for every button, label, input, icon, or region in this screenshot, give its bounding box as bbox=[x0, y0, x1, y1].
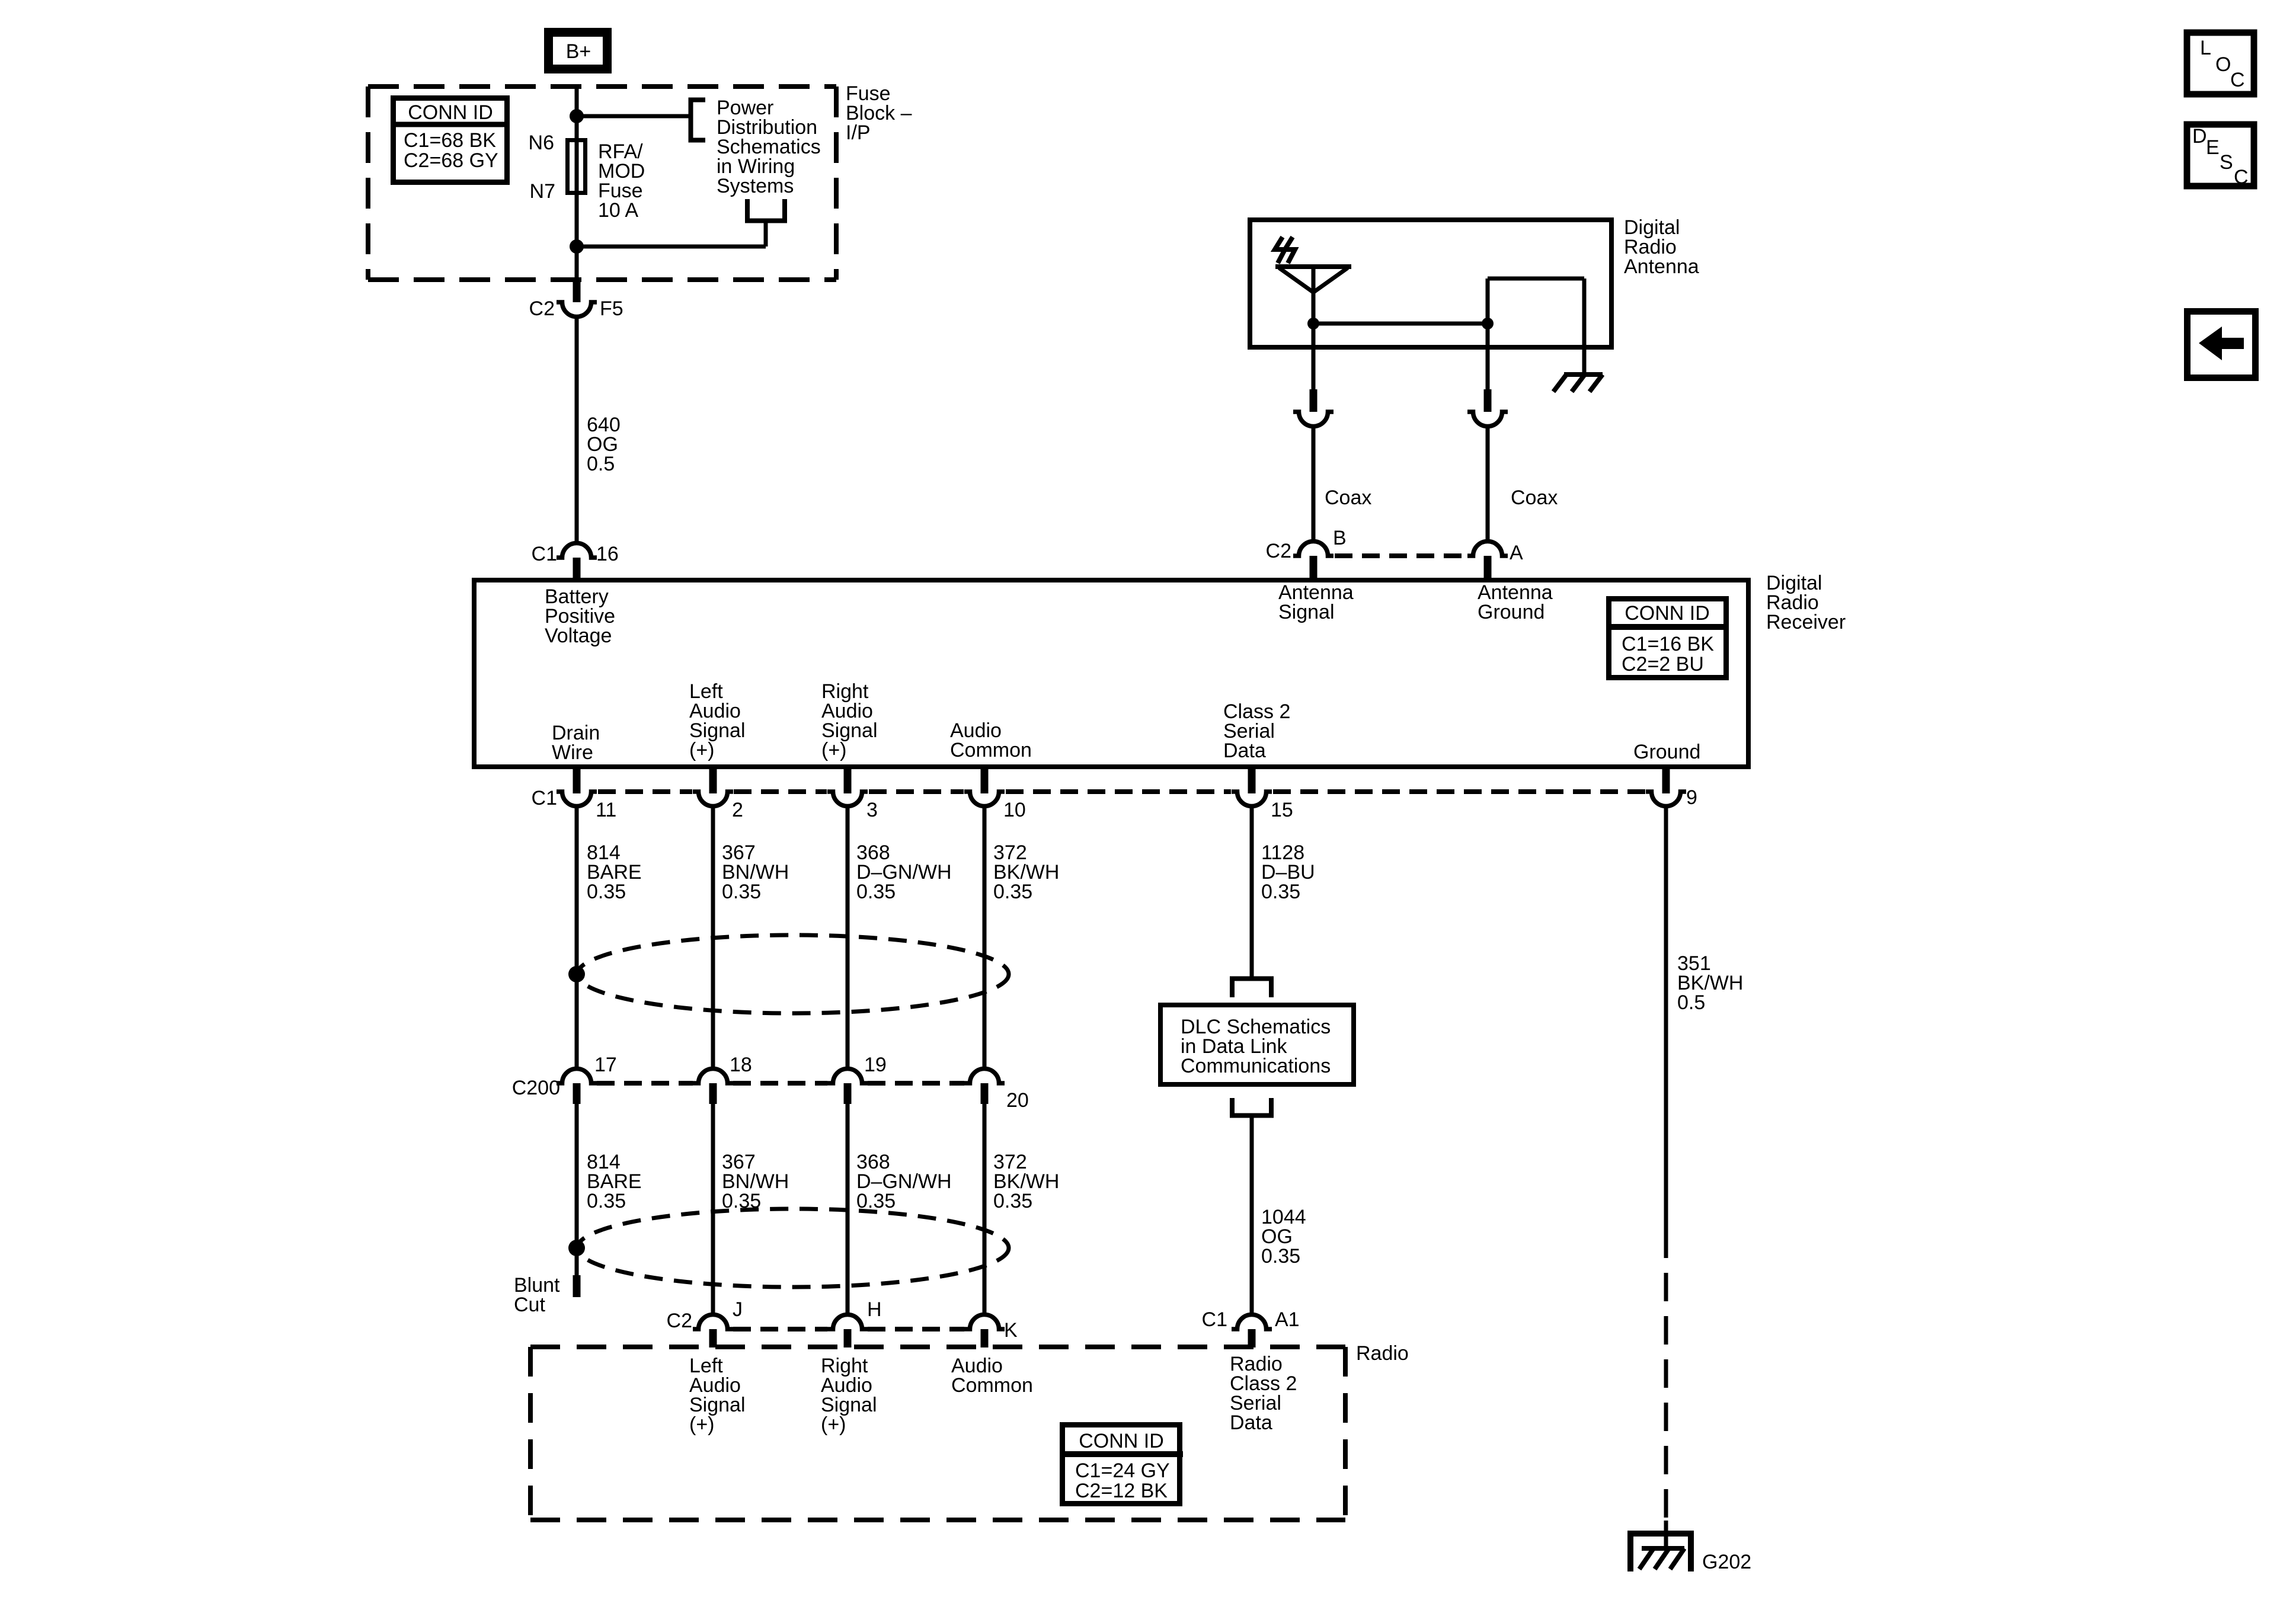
svg-text:(+): (+) bbox=[821, 739, 847, 761]
svg-text:C1: C1 bbox=[1202, 1308, 1227, 1331]
svg-text:C2=2 BU: C2=2 BU bbox=[1622, 653, 1704, 676]
svg-text:K: K bbox=[1004, 1319, 1018, 1342]
svg-text:19: 19 bbox=[864, 1054, 887, 1076]
svg-text:Signal: Signal bbox=[1278, 601, 1335, 623]
svg-text:C: C bbox=[2234, 166, 2249, 188]
svg-text:CONN ID: CONN ID bbox=[1625, 602, 1710, 625]
svg-text:0.5: 0.5 bbox=[587, 453, 615, 475]
svg-text:I/P: I/P bbox=[846, 121, 871, 144]
svg-text:Common: Common bbox=[951, 1374, 1033, 1397]
svg-text:C2=68 GY: C2=68 GY bbox=[404, 149, 498, 172]
svg-text:20: 20 bbox=[1006, 1089, 1029, 1112]
svg-text:J: J bbox=[733, 1298, 743, 1321]
svg-text:Communications: Communications bbox=[1181, 1055, 1331, 1077]
svg-text:10: 10 bbox=[1003, 799, 1026, 821]
svg-text:C1=68 BK: C1=68 BK bbox=[404, 129, 496, 152]
svg-text:Coax: Coax bbox=[1511, 486, 1558, 509]
svg-text:G202: G202 bbox=[1702, 1551, 1751, 1573]
svg-text:10 A: 10 A bbox=[598, 199, 638, 222]
svg-text:Coax: Coax bbox=[1325, 486, 1371, 509]
svg-text:O: O bbox=[2215, 53, 2231, 76]
svg-text:3: 3 bbox=[866, 799, 878, 821]
svg-text:A1: A1 bbox=[1275, 1308, 1300, 1331]
svg-text:0.35: 0.35 bbox=[1261, 881, 1300, 903]
svg-text:B+: B+ bbox=[566, 40, 591, 63]
svg-text:C2=12 BK: C2=12 BK bbox=[1075, 1480, 1168, 1502]
svg-text:16: 16 bbox=[596, 543, 619, 565]
svg-text:2: 2 bbox=[732, 799, 743, 821]
svg-text:Ground: Ground bbox=[1633, 741, 1700, 763]
svg-text:0.35: 0.35 bbox=[587, 881, 626, 903]
svg-text:17: 17 bbox=[594, 1054, 617, 1076]
svg-text:C1=16 BK: C1=16 BK bbox=[1622, 633, 1714, 655]
svg-text:11: 11 bbox=[596, 799, 616, 821]
svg-text:Radio: Radio bbox=[1356, 1342, 1409, 1365]
svg-text:C2: C2 bbox=[1266, 540, 1291, 562]
svg-text:H: H bbox=[867, 1298, 882, 1321]
svg-text:0.35: 0.35 bbox=[993, 1190, 1032, 1212]
svg-text:CONN ID: CONN ID bbox=[408, 101, 493, 124]
svg-text:(+): (+) bbox=[689, 1413, 715, 1436]
svg-text:(+): (+) bbox=[689, 739, 715, 761]
svg-text:C2: C2 bbox=[667, 1310, 692, 1332]
svg-text:C: C bbox=[2230, 69, 2245, 91]
svg-text:Receiver: Receiver bbox=[1766, 611, 1846, 633]
svg-text:9: 9 bbox=[1686, 786, 1697, 809]
svg-text:(+): (+) bbox=[821, 1413, 846, 1436]
svg-text:C1: C1 bbox=[532, 787, 557, 809]
svg-text:A: A bbox=[1510, 542, 1523, 564]
svg-text:Data: Data bbox=[1230, 1411, 1272, 1434]
svg-text:Wire: Wire bbox=[552, 741, 593, 764]
svg-text:18: 18 bbox=[730, 1054, 752, 1076]
svg-text:0.35: 0.35 bbox=[1261, 1245, 1300, 1267]
svg-text:0.35: 0.35 bbox=[587, 1190, 626, 1212]
svg-text:B: B bbox=[1333, 527, 1347, 549]
svg-text:C200: C200 bbox=[512, 1077, 560, 1099]
svg-text:F5: F5 bbox=[600, 297, 623, 320]
svg-text:15: 15 bbox=[1271, 799, 1293, 821]
svg-text:0.35: 0.35 bbox=[993, 881, 1032, 903]
svg-text:Antenna: Antenna bbox=[1624, 255, 1699, 278]
svg-text:C1: C1 bbox=[532, 543, 557, 565]
svg-text:Data: Data bbox=[1223, 740, 1266, 762]
svg-text:N6: N6 bbox=[529, 132, 554, 154]
svg-text:0.35: 0.35 bbox=[856, 881, 896, 903]
svg-text:L: L bbox=[2200, 37, 2211, 59]
svg-text:C1=24 GY: C1=24 GY bbox=[1075, 1459, 1170, 1482]
svg-text:0.5: 0.5 bbox=[1677, 991, 1705, 1014]
svg-text:Systems: Systems bbox=[717, 175, 794, 197]
svg-text:N7: N7 bbox=[530, 180, 555, 203]
svg-text:E: E bbox=[2206, 136, 2220, 159]
svg-text:S: S bbox=[2220, 151, 2233, 174]
svg-text:CONN ID: CONN ID bbox=[1079, 1430, 1164, 1452]
svg-text:Ground: Ground bbox=[1478, 601, 1544, 623]
svg-text:Cut: Cut bbox=[514, 1294, 545, 1316]
svg-text:Common: Common bbox=[950, 739, 1032, 761]
svg-text:0.35: 0.35 bbox=[722, 881, 761, 903]
svg-text:C2: C2 bbox=[529, 297, 555, 320]
svg-text:D: D bbox=[2192, 125, 2207, 148]
svg-text:Voltage: Voltage bbox=[545, 625, 612, 647]
